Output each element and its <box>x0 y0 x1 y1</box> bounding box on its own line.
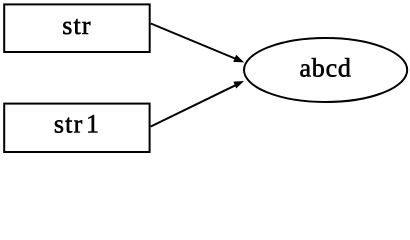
arrowhead on str -> abcd <box>233 55 244 63</box>
svg-text:str1: str1 <box>54 109 100 138</box>
node str1 (rectangle) <box>4 104 149 152</box>
wire: arrow line str1 -> abcd <box>151 83 241 127</box>
node abcd (ellipse) <box>244 38 407 102</box>
wire: arrow line str -> abcd <box>151 24 241 62</box>
arrowhead on str1 -> abcd <box>233 81 244 89</box>
node str (rectangle) <box>4 4 150 52</box>
svg-text:abcd: abcd <box>299 53 351 82</box>
svg-text:str: str <box>62 11 92 40</box>
